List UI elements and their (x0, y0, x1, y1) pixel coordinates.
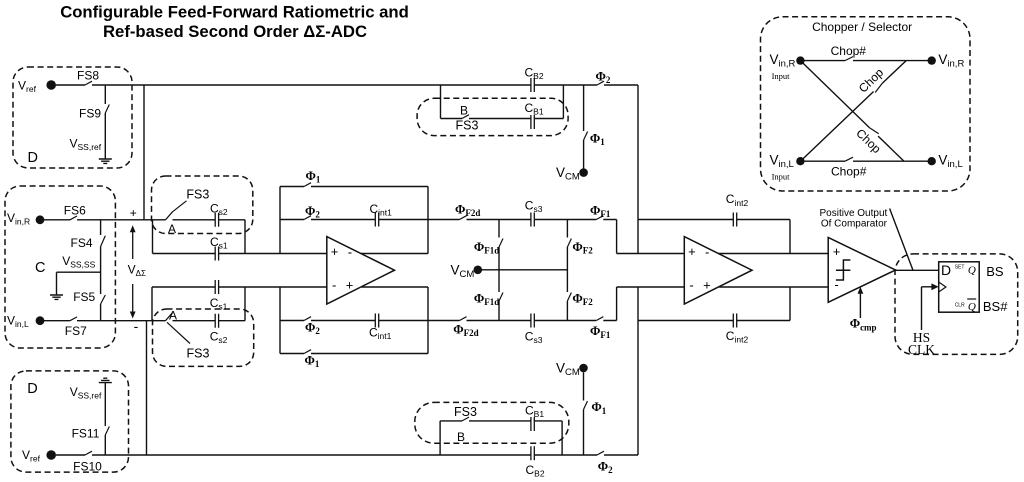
svg-text:+: + (346, 278, 354, 293)
svg-text:Input: Input (772, 71, 791, 81)
svg-text:FS11: FS11 (72, 426, 100, 440)
svg-text:FS3: FS3 (456, 119, 479, 133)
svg-text:Configurable Feed-Forward Rati: Configurable Feed-Forward Ratiometric an… (60, 3, 409, 22)
svg-text:FS6: FS6 (64, 204, 86, 218)
svg-text:Chop#: Chop# (831, 44, 867, 58)
svg-text:FS10: FS10 (73, 459, 102, 473)
svg-text:+: + (703, 278, 711, 293)
svg-text:Ref-based Second Order ΔΣ-ADC: Ref-based Second Order ΔΣ-ADC (103, 22, 367, 41)
svg-text:D: D (28, 150, 38, 166)
svg-text:FS9: FS9 (79, 107, 101, 121)
svg-text:+: + (688, 244, 696, 259)
svg-text:Chop#: Chop# (831, 164, 867, 178)
svg-text:Q: Q (968, 301, 976, 313)
svg-text:CLR: CLR (955, 302, 965, 308)
svg-text:FS3: FS3 (454, 405, 477, 419)
svg-text:B: B (460, 103, 468, 117)
svg-text:-: - (134, 318, 139, 334)
svg-text:-: - (689, 278, 693, 293)
svg-text:FS3: FS3 (187, 347, 210, 361)
svg-text:-: - (834, 277, 838, 292)
svg-text:Q: Q (968, 265, 976, 277)
svg-text:-: - (705, 244, 709, 259)
svg-text:D: D (27, 381, 37, 397)
svg-text:FS8: FS8 (77, 69, 99, 83)
svg-text:CLK: CLK (908, 342, 935, 357)
svg-text:Chopper / Selector: Chopper / Selector (812, 20, 912, 34)
svg-text:-: - (332, 278, 336, 293)
svg-text:FS7: FS7 (65, 324, 87, 338)
svg-text:+: + (331, 244, 339, 259)
svg-text:+: + (130, 206, 137, 220)
svg-text:Of Comparator: Of Comparator (821, 219, 888, 230)
svg-text:C: C (35, 260, 45, 276)
svg-text:-: - (348, 244, 352, 259)
svg-text:FS4: FS4 (70, 236, 92, 250)
svg-text:FS5: FS5 (73, 290, 95, 304)
svg-text:+: + (833, 244, 841, 259)
svg-text:BS: BS (986, 264, 1004, 279)
svg-text:B: B (457, 430, 465, 444)
svg-text:SET: SET (955, 264, 965, 270)
svg-text:Input: Input (772, 171, 791, 181)
svg-text:FS3: FS3 (186, 187, 209, 201)
svg-text:BS#: BS# (983, 299, 1008, 314)
svg-text:A: A (168, 222, 176, 236)
svg-text:A: A (169, 309, 177, 323)
svg-text:D: D (941, 262, 951, 278)
svg-text:Positive Output: Positive Output (819, 208, 887, 219)
